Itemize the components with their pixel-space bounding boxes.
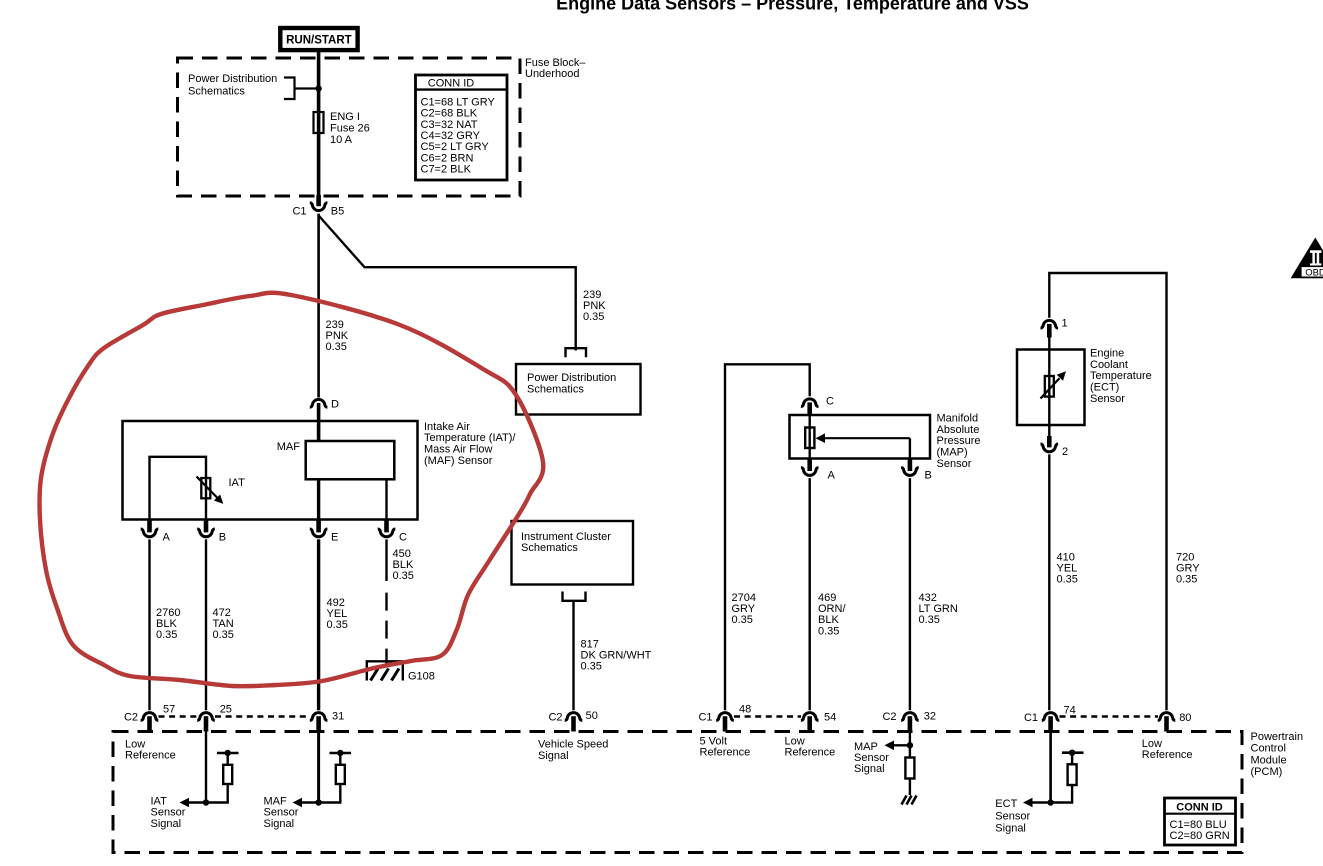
- svg-text:Underhood: Underhood: [525, 68, 579, 80]
- PCM connector pin 57: [141, 713, 159, 721]
- Instrument Cluster Schematics reference box: [512, 521, 634, 585]
- wiper arrow in MAP sensor: [825, 437, 910, 439]
- MAF pull-up network inside PCM: [317, 732, 320, 803]
- svg-text:32: 32: [924, 711, 936, 723]
- svg-text:C5=2 LT GRY: C5=2 LT GRY: [421, 141, 490, 153]
- PCM connector pin 80: [1158, 713, 1176, 721]
- svg-text:Reference: Reference: [1142, 749, 1193, 761]
- svg-text:GRY: GRY: [1176, 563, 1200, 575]
- svg-text:50: 50: [586, 710, 598, 722]
- svg-text:Signal: Signal: [264, 818, 295, 830]
- svg-text:Vehicle Speed: Vehicle Speed: [538, 739, 608, 751]
- pin E connector of sensor: [316, 520, 321, 533]
- svg-text:410: 410: [1057, 551, 1075, 563]
- thermistor arrow of ECT: [1041, 378, 1060, 398]
- svg-text:80: 80: [1179, 712, 1191, 724]
- arrow MAF sensor signal: [302, 801, 319, 803]
- svg-text:YEL: YEL: [327, 608, 348, 620]
- wire low reference top link for ECT sensor: [1049, 273, 1166, 710]
- svg-text:Absolute: Absolute: [937, 424, 980, 436]
- wire MAF bottom-right to pin C: [385, 479, 387, 519]
- svg-text:C7=2 BLK: C7=2 BLK: [421, 164, 472, 176]
- PCM connector pin 54: [801, 713, 819, 721]
- svg-text:Schematics: Schematics: [527, 384, 584, 396]
- MAF element box: [306, 441, 395, 479]
- svg-text:48: 48: [739, 703, 751, 715]
- svg-text:0.35: 0.35: [581, 661, 602, 673]
- wire branch: diagonal from B5 to Power Distribution off-page: [319, 216, 576, 351]
- svg-text:Reference: Reference: [700, 747, 751, 759]
- junction dot inside fuse block: [315, 85, 321, 91]
- svg-text:IAT: IAT: [151, 795, 168, 807]
- wire 469 ORN/BLK from MAP A to PCM 54: [809, 478, 811, 710]
- svg-text:Sensor: Sensor: [264, 807, 299, 819]
- ECT pull-up network inside PCM: [1049, 732, 1052, 803]
- svg-text:(MAP): (MAP): [937, 447, 968, 459]
- svg-text:Fuse Block–: Fuse Block–: [525, 57, 586, 69]
- svg-text:Pressure: Pressure: [937, 435, 981, 447]
- wire MAF bottom-left to pin E: [317, 479, 320, 519]
- wire to internal ground: [909, 779, 911, 796]
- voltage bar above MAF pull-up resistor: [339, 753, 341, 765]
- junction dot on MAF signal: [315, 799, 321, 805]
- svg-text:5 Volt: 5 Volt: [700, 736, 728, 748]
- arrow MAP sensor signal: [893, 744, 910, 746]
- svg-text:Sensor: Sensor: [1090, 393, 1125, 405]
- svg-text:Signal: Signal: [854, 763, 885, 775]
- svg-text:BLK: BLK: [156, 618, 177, 630]
- wire 450 BLK from pin C to ground G108 (dashed): [385, 539, 387, 581]
- svg-text:LT GRN: LT GRN: [919, 603, 958, 615]
- wire 432 LT GRN from MAP B to PCM 32: [909, 478, 911, 710]
- svg-text:(MAF) Sensor: (MAF) Sensor: [424, 455, 493, 467]
- svg-text:Engine: Engine: [1090, 348, 1124, 360]
- svg-text:C6=2 BRN: C6=2 BRN: [421, 152, 474, 164]
- IAT / MAF sensor box: [123, 421, 418, 520]
- resistor MAP termination: [905, 758, 914, 779]
- resistor element in MAP sensor: [805, 428, 814, 449]
- wire from B5 down to IAT/MAF connector D: [317, 214, 320, 398]
- pin A connector of sensor: [147, 520, 152, 533]
- dashed connector link 57-25-31: [159, 715, 198, 718]
- svg-text:C3=32 NAT: C3=32 NAT: [421, 119, 478, 131]
- svg-text:Engine Data Sensors – Pressure: Engine Data Sensors – Pressure, Temperat…: [556, 0, 1029, 13]
- connector C of MAP sensor: [801, 399, 819, 407]
- CONN ID table (PCM): [1165, 798, 1236, 845]
- PCM connector pin 50: [565, 713, 583, 721]
- PCM connector pin 25: [197, 713, 215, 721]
- svg-text:C1=68 LT GRY: C1=68 LT GRY: [421, 96, 496, 108]
- pin B connector of MAP sensor: [908, 459, 913, 472]
- svg-text:Reference: Reference: [785, 747, 836, 759]
- svg-text:Coolant: Coolant: [1090, 359, 1128, 371]
- svg-text:Instrument Cluster: Instrument Cluster: [521, 531, 611, 543]
- svg-text:OBD: OBD: [1305, 267, 1323, 278]
- svg-text:MAP: MAP: [854, 741, 878, 753]
- thermistor ECT element: [1045, 376, 1054, 397]
- svg-text:Low: Low: [785, 736, 805, 748]
- resistor MAF pull-up: [336, 765, 345, 784]
- red marker annotation loop around IAT/MAF circuit: [39, 293, 543, 687]
- fuse block dashed enclosure Fuse Block-Underhood: [178, 58, 521, 196]
- svg-text:Control: Control: [1251, 743, 1286, 755]
- svg-text:472: 472: [213, 607, 231, 619]
- OBD II marker icon: [1291, 238, 1323, 279]
- svg-text:31: 31: [332, 711, 344, 723]
- svg-text:0.35: 0.35: [327, 619, 348, 631]
- svg-text:2: 2: [1062, 446, 1068, 458]
- svg-text:YEL: YEL: [1057, 563, 1078, 575]
- connector 2 of ECT sensor: [1047, 436, 1052, 447]
- svg-text:GRY: GRY: [732, 603, 756, 615]
- wire 472 TAN from pin B to PCM 25: [205, 539, 207, 710]
- svg-text:BLK: BLK: [393, 559, 414, 571]
- svg-text:C2: C2: [548, 711, 562, 723]
- IAT pull-up network inside PCM: [205, 732, 207, 803]
- wire from wiper to pin B: [909, 438, 911, 458]
- connector 1 of ECT sensor: [1041, 320, 1059, 328]
- svg-text:C2=68 BLK: C2=68 BLK: [421, 108, 478, 120]
- PCM connector pin 48: [716, 713, 734, 721]
- svg-text:B: B: [219, 531, 226, 543]
- wire 492 YEL from pin E to PCM 31: [317, 539, 320, 710]
- svg-text:(ECT): (ECT): [1090, 382, 1119, 394]
- svg-text:Sensor: Sensor: [151, 807, 186, 819]
- svg-text:(PCM): (PCM): [1251, 766, 1283, 778]
- svg-text:BLK: BLK: [818, 614, 839, 626]
- svg-text:DK GRN/WHT: DK GRN/WHT: [581, 650, 652, 662]
- svg-text:C2=80 GRN: C2=80 GRN: [1170, 830, 1230, 842]
- svg-text:2760: 2760: [156, 607, 180, 619]
- svg-text:0.35: 0.35: [1057, 574, 1078, 586]
- svg-text:ENG I: ENG I: [330, 111, 360, 123]
- junction dot on IAT signal: [203, 799, 209, 805]
- svg-text:0.35: 0.35: [919, 614, 940, 626]
- svg-text:Powertrain: Powertrain: [1251, 731, 1304, 743]
- svg-text:Low: Low: [1142, 738, 1162, 750]
- MAP sensor box: [790, 415, 931, 459]
- svg-text:E: E: [331, 531, 338, 543]
- dashed connector link 74-80: [1060, 715, 1159, 718]
- svg-text:0.35: 0.35: [732, 614, 753, 626]
- svg-text:Power Distribution: Power Distribution: [527, 372, 616, 384]
- svg-text:Mass Air Flow: Mass Air Flow: [424, 444, 493, 456]
- wire 2760 BLK from pin A to PCM 57: [148, 539, 150, 710]
- svg-text:Low: Low: [125, 738, 145, 750]
- svg-text:B5: B5: [331, 205, 344, 217]
- Power Distribution Schematics reference box: [516, 364, 641, 415]
- off-page connector symbol below Instrument Cluster box: [563, 592, 586, 601]
- svg-text:C2: C2: [124, 711, 138, 723]
- svg-text:A: A: [828, 469, 836, 481]
- svg-text:54: 54: [824, 712, 836, 724]
- svg-text:10 A: 10 A: [330, 134, 353, 146]
- svg-text:432: 432: [919, 592, 937, 604]
- arrow ECT sensor signal: [1033, 801, 1051, 803]
- dashed connector link 48-54: [734, 715, 801, 718]
- svg-text:Temperature: Temperature: [1090, 370, 1152, 382]
- voltage bar above IAT pull-up resistor: [226, 753, 228, 765]
- thermistor IAT element: [201, 478, 210, 498]
- svg-text:450: 450: [393, 548, 411, 560]
- off-page connector symbol above Power Distribution Schematics box: [566, 348, 587, 357]
- wire through MAP resistor: [809, 415, 811, 459]
- resistor IAT pull-up: [223, 765, 232, 784]
- CONN ID table (fuse block): [416, 75, 508, 180]
- power feed RUN/START box: [280, 28, 357, 50]
- connector D of IAT/MAF sensor: [310, 399, 328, 407]
- svg-text:720: 720: [1176, 551, 1194, 563]
- PCM connector pin 31: [310, 713, 328, 721]
- svg-text:0.35: 0.35: [583, 311, 604, 323]
- svg-text:ORN/: ORN/: [818, 603, 846, 615]
- svg-text:2704: 2704: [732, 592, 756, 604]
- svg-text:Signal: Signal: [995, 822, 1026, 834]
- svg-text:A: A: [163, 531, 171, 543]
- svg-text:C: C: [399, 531, 407, 543]
- svg-text:Schematics: Schematics: [188, 85, 245, 97]
- svg-text:C2: C2: [882, 711, 896, 723]
- ground G108 symbol: [367, 661, 403, 680]
- arrow IAT sensor signal: [189, 801, 206, 803]
- svg-text:Manifold: Manifold: [937, 413, 979, 425]
- voltage bar above ECT pull-up resistor: [1071, 753, 1073, 765]
- svg-text:0.35: 0.35: [156, 629, 177, 641]
- wire 817 DK GRN/WHT to PCM 50: [572, 601, 574, 711]
- svg-text:0.35: 0.35: [818, 625, 839, 637]
- wire 410 YEL from ECT 2 to PCM 74: [1048, 454, 1050, 710]
- ECT sensor box: [1017, 350, 1085, 426]
- svg-text:Sensor: Sensor: [854, 752, 889, 764]
- svg-text:C4=32 GRY: C4=32 GRY: [421, 130, 481, 142]
- svg-text:RUN/START: RUN/START: [286, 34, 352, 46]
- svg-text:1: 1: [1062, 317, 1068, 329]
- svg-text:57: 57: [163, 703, 175, 715]
- pin A connector of MAP sensor: [807, 459, 812, 472]
- svg-text:25: 25: [220, 703, 232, 715]
- wire: main feed from RUN/START through fuse block to connector C1 B5: [317, 50, 321, 205]
- svg-text:TAN: TAN: [213, 618, 234, 630]
- fuse ENG I Fuse 26 10A: [314, 112, 324, 133]
- svg-text:C: C: [826, 396, 834, 408]
- svg-text:0.35: 0.35: [326, 341, 347, 353]
- connector C1 B5 at fuse block output: [316, 195, 321, 206]
- svg-text:MAF: MAF: [277, 441, 301, 453]
- resistor ECT pull-up: [1068, 764, 1077, 785]
- wire inside sensor: top link for IAT element: [150, 457, 207, 520]
- svg-text:469: 469: [818, 592, 836, 604]
- pin C connector of sensor: [384, 520, 389, 533]
- svg-text:C1: C1: [292, 205, 306, 217]
- svg-text:CONN ID: CONN ID: [428, 78, 475, 90]
- svg-text:Sensor: Sensor: [995, 810, 1030, 822]
- svg-text:0.35: 0.35: [393, 570, 414, 582]
- bracket symbol to Power Distribution Schematics: [284, 78, 319, 100]
- svg-text:IAT: IAT: [229, 477, 246, 489]
- svg-text:Fuse 26: Fuse 26: [330, 122, 370, 134]
- svg-text:D: D: [331, 399, 339, 411]
- svg-text:Module: Module: [1251, 754, 1287, 766]
- svg-text:74: 74: [1064, 704, 1076, 716]
- svg-text:Signal: Signal: [538, 750, 569, 762]
- svg-text:Reference: Reference: [125, 750, 176, 762]
- svg-text:ECT: ECT: [995, 798, 1017, 810]
- svg-text:MAF: MAF: [264, 795, 288, 807]
- MAP signal network inside PCM: [909, 732, 911, 758]
- svg-text:492: 492: [327, 597, 345, 609]
- svg-text:Temperature (IAT)/: Temperature (IAT)/: [424, 432, 516, 444]
- svg-text:Sensor: Sensor: [937, 458, 972, 470]
- Powertrain Control Module dashed enclosure: [113, 732, 1242, 853]
- svg-text:Intake Air: Intake Air: [424, 421, 470, 433]
- svg-text:C1: C1: [698, 711, 712, 723]
- svg-text:G108: G108: [408, 671, 435, 683]
- svg-text:C1: C1: [1024, 712, 1038, 724]
- ground symbol inside PCM: [902, 796, 907, 805]
- pin B connector of sensor: [204, 520, 209, 533]
- svg-text:Signal: Signal: [151, 818, 182, 830]
- svg-text:Power Distribution: Power Distribution: [188, 73, 277, 85]
- thermistor arrow of IAT: [197, 477, 218, 499]
- junction dot on ECT signal: [1047, 799, 1053, 805]
- junction dot on MAP signal: [907, 742, 913, 748]
- svg-text:0.35: 0.35: [1176, 574, 1197, 586]
- svg-text:CONN ID: CONN ID: [1176, 801, 1223, 813]
- PCM connector pin 74: [1042, 713, 1060, 721]
- svg-text:0.35: 0.35: [213, 629, 234, 641]
- wire through ECT thermistor: [1048, 350, 1050, 437]
- svg-text:817: 817: [581, 638, 599, 650]
- PCM connector pin 32: [901, 713, 919, 721]
- wire 5V reference branch to MAP sensor (top link): [725, 364, 810, 710]
- svg-text:B: B: [925, 469, 932, 481]
- svg-text:Schematics: Schematics: [521, 542, 578, 554]
